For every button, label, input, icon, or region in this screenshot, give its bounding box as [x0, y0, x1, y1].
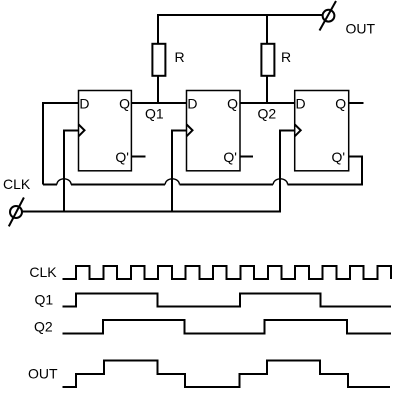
svg-text:R: R: [175, 49, 185, 65]
wire: R2 top riser: [266, 15, 268, 44]
waveform Q2: [62, 320, 391, 334]
wire hop over riser 2: [165, 179, 179, 185]
flip-flop U2 box: [187, 91, 241, 171]
waveform Q1: [62, 294, 391, 307]
wire: R1 bottom to node Q1: [157, 76, 159, 104]
resistor R1: [152, 44, 165, 76]
svg-text:Q': Q': [223, 149, 237, 165]
svg-text:Q: Q: [227, 96, 238, 112]
waveform CLK: [62, 266, 391, 279]
svg-text:Q: Q: [335, 96, 346, 112]
svg-text:Q1: Q1: [35, 291, 54, 307]
resistor R2: [261, 44, 274, 76]
wire: U3 Q output stub: [349, 102, 364, 104]
wire: U2 Q' stub: [240, 156, 253, 158]
svg-text:Q': Q': [115, 149, 129, 165]
svg-text:Q1: Q1: [145, 105, 164, 121]
U1 clock input triangle: [79, 124, 85, 136]
flip-flop U1 box: [79, 91, 132, 171]
svg-text:R: R: [281, 49, 291, 65]
svg-text:D: D: [187, 96, 197, 112]
wire hop over riser 1: [57, 179, 71, 185]
svg-text:Q': Q': [332, 149, 346, 165]
terminal OUT (connector circle): [323, 10, 335, 22]
terminal OUT slash: [320, 1, 337, 31]
terminal CLK slash: [9, 198, 24, 227]
terminal CLK (connector circle): [10, 206, 22, 218]
wire: top output rail with drop to R1: [158, 15, 323, 44]
U2 clock input triangle: [187, 124, 193, 136]
wire: feedback to D of U1: [43, 103, 79, 185]
flip-flop U3 box: [295, 91, 349, 171]
waveform OUT (staircase): [62, 360, 390, 386]
svg-text:CLK: CLK: [3, 176, 31, 192]
wire: R2 bottom to node Q2: [266, 76, 268, 104]
svg-text:Q2: Q2: [34, 319, 53, 335]
wire: clock riser to U2: [172, 131, 187, 212]
svg-text:CLK: CLK: [29, 264, 57, 280]
wire hop over riser 3: [273, 179, 287, 185]
wire: CLK bus and riser to U3: [22, 131, 295, 212]
wire: Q2 net (U2.Q to U3.D): [240, 102, 295, 104]
wire: Q1 net (U1.Q to U2.D): [131, 102, 186, 104]
svg-text:D: D: [296, 96, 306, 112]
svg-text:Q: Q: [119, 96, 130, 112]
svg-text:OUT: OUT: [28, 366, 58, 382]
wire: U3 Q' to feedback line (segments between hops): [43, 157, 362, 185]
svg-text:OUT: OUT: [346, 20, 376, 36]
wire: U1 Q' stub: [131, 156, 145, 158]
svg-text:D: D: [79, 96, 89, 112]
wire: clock riser to U1: [64, 131, 79, 212]
U3 clock input triangle: [295, 124, 301, 136]
svg-text:Q2: Q2: [258, 105, 277, 121]
